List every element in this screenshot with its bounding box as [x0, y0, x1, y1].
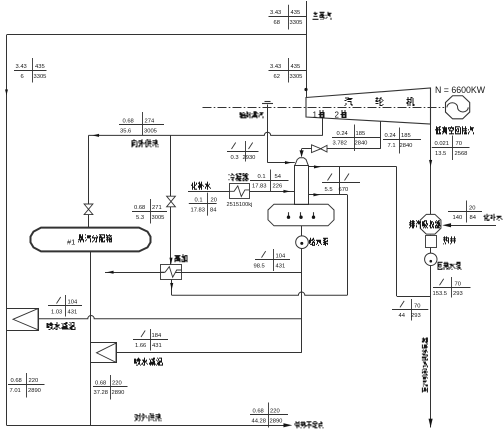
svg-text:2840: 2840: [355, 141, 368, 147]
svg-text:104: 104: [276, 254, 286, 260]
svg-text:N = 6600KW: N = 6600KW: [435, 84, 485, 95]
svg-text:62: 62: [274, 74, 280, 80]
svg-text:3.43: 3.43: [16, 64, 27, 70]
svg-text:20: 20: [469, 205, 475, 211]
svg-text:3305: 3305: [290, 20, 303, 26]
svg-text:2840: 2840: [400, 143, 413, 149]
svg-text:5.3: 5.3: [136, 215, 144, 221]
svg-text:0.68: 0.68: [95, 380, 106, 386]
svg-text:431: 431: [68, 309, 78, 315]
svg-text:98.5: 98.5: [254, 263, 265, 269]
svg-text:54: 54: [275, 174, 282, 180]
svg-text:0.68: 0.68: [11, 378, 22, 384]
svg-text:17.83: 17.83: [252, 184, 267, 190]
svg-text:220: 220: [270, 409, 280, 415]
svg-text:670: 670: [339, 187, 349, 193]
svg-text:226: 226: [273, 184, 283, 190]
svg-text:2: 2: [335, 111, 340, 120]
svg-text:220: 220: [112, 380, 122, 386]
svg-text:431: 431: [276, 263, 286, 269]
svg-text:431: 431: [152, 343, 162, 349]
svg-text:1: 1: [313, 111, 318, 120]
svg-text:435: 435: [291, 10, 301, 16]
svg-text:0.1: 0.1: [195, 198, 203, 204]
svg-text:3.43: 3.43: [270, 64, 281, 70]
svg-text:2930: 2930: [243, 155, 256, 161]
svg-text:293: 293: [453, 291, 463, 297]
svg-text:3.43: 3.43: [270, 10, 281, 16]
svg-text:153.5: 153.5: [433, 291, 448, 297]
svg-text:#1: #1: [67, 237, 75, 246]
svg-text:13.5: 13.5: [435, 151, 446, 157]
svg-text:140: 140: [453, 215, 463, 221]
svg-text:35.6: 35.6: [120, 128, 131, 134]
svg-text:2568: 2568: [455, 151, 468, 157]
svg-text:7.01: 7.01: [10, 388, 21, 394]
svg-text:5.5: 5.5: [325, 187, 333, 193]
svg-text:3.782: 3.782: [333, 141, 348, 147]
svg-text:0.68: 0.68: [134, 205, 145, 211]
svg-text:20: 20: [211, 198, 217, 204]
svg-text:0.1: 0.1: [258, 174, 266, 180]
svg-text:6: 6: [21, 74, 24, 80]
svg-text:70: 70: [414, 303, 420, 309]
svg-text:2890: 2890: [28, 388, 41, 394]
svg-text:1.66: 1.66: [135, 343, 146, 349]
svg-text:271: 271: [152, 205, 162, 211]
svg-text:2515100kj: 2515100kj: [227, 202, 253, 208]
svg-text:220: 220: [29, 378, 39, 384]
svg-text:68: 68: [274, 20, 280, 26]
svg-text:17.83: 17.83: [191, 208, 206, 214]
svg-text:435: 435: [291, 64, 301, 70]
svg-text:274: 274: [145, 119, 155, 125]
svg-text:2890: 2890: [112, 390, 125, 396]
svg-text:3305: 3305: [290, 74, 303, 80]
svg-text:185: 185: [356, 131, 366, 137]
svg-text:84: 84: [470, 215, 477, 221]
svg-text:1.03: 1.03: [51, 309, 62, 315]
svg-text:0.24: 0.24: [337, 131, 349, 137]
svg-text:0.68: 0.68: [253, 409, 264, 415]
svg-text:104: 104: [68, 300, 78, 306]
svg-text:70: 70: [456, 141, 462, 147]
svg-text:0.021: 0.021: [435, 141, 450, 147]
svg-text:293: 293: [411, 313, 421, 319]
svg-text:37.28: 37.28: [94, 390, 109, 396]
svg-text:0.3: 0.3: [231, 155, 239, 161]
svg-text:84: 84: [210, 208, 217, 214]
svg-text:185: 185: [401, 133, 411, 139]
svg-text:0.24: 0.24: [385, 133, 397, 139]
svg-text:2890: 2890: [270, 418, 283, 424]
svg-text:44: 44: [399, 313, 406, 319]
svg-text:70: 70: [455, 281, 461, 287]
svg-text:184: 184: [152, 333, 162, 339]
svg-text:435: 435: [35, 64, 45, 70]
svg-text:3005: 3005: [144, 128, 157, 134]
svg-text:44.28: 44.28: [252, 418, 267, 424]
svg-text:3305: 3305: [34, 74, 47, 80]
svg-text:0.68: 0.68: [123, 119, 134, 125]
svg-text:7.1: 7.1: [388, 143, 396, 149]
svg-text:3005: 3005: [152, 215, 165, 221]
